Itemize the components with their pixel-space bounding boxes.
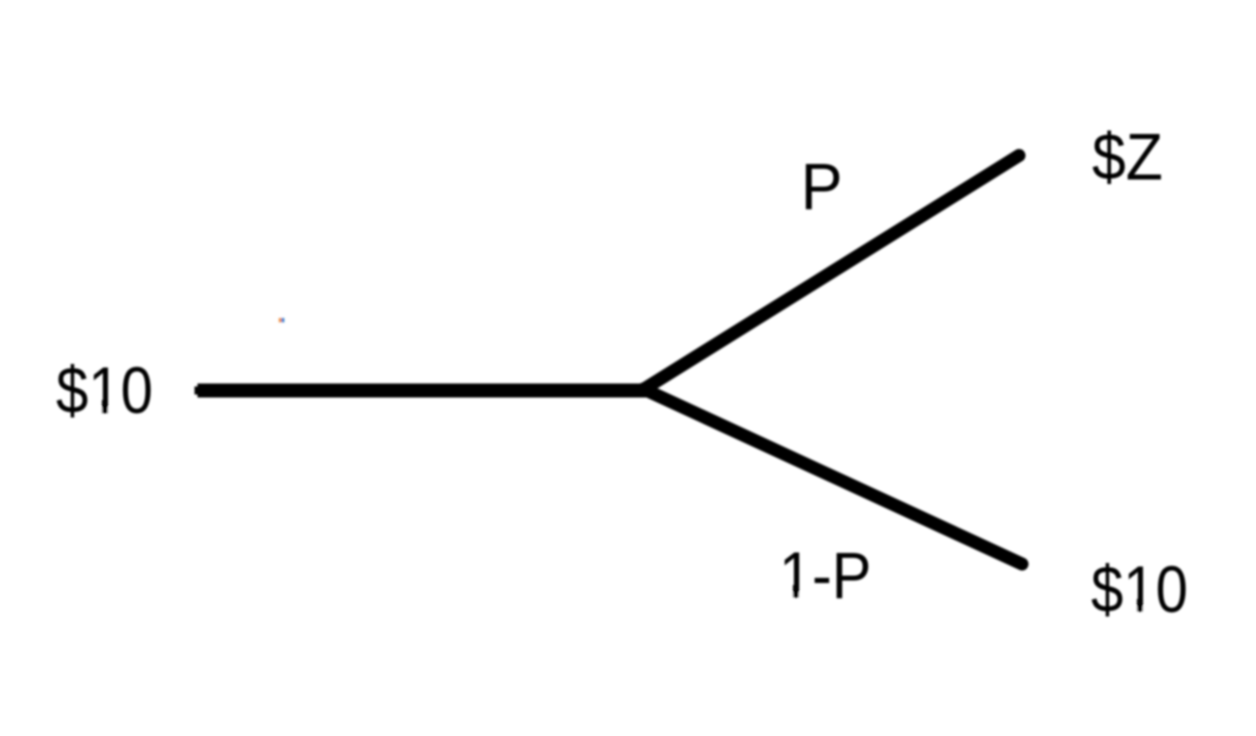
svg-text:$Z: $Z [1092, 121, 1163, 194]
svg-text:1-P: 1-P [779, 539, 871, 613]
svg-text:P: P [801, 150, 843, 224]
svg-text:$10: $10 [56, 355, 153, 428]
svg-text:$10: $10 [1091, 554, 1188, 627]
